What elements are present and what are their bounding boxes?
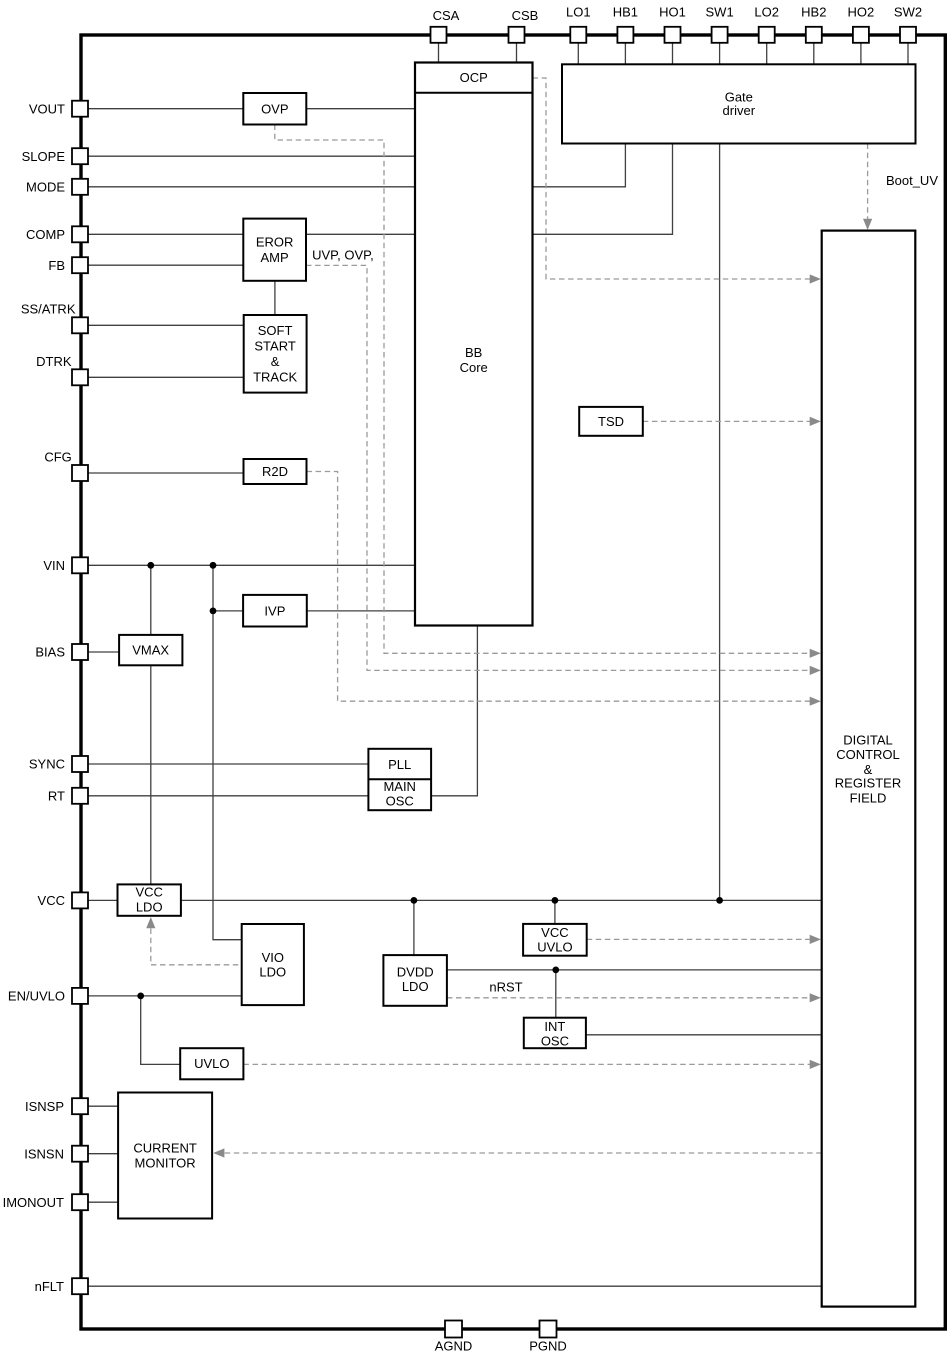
wire FB to error amp [88, 264, 243, 266]
pin IMONOUT [72, 1194, 88, 1210]
svg-text:MAIN: MAIN [383, 779, 416, 794]
wire SW2 stub [907, 43, 909, 65]
dashed net VCC UVLO to digital control [587, 938, 811, 940]
wire error amp to BB core [306, 233, 416, 235]
svg-text:INT: INT [544, 1019, 565, 1034]
block UVLO [180, 1048, 243, 1079]
pin HB1 [617, 27, 633, 43]
pin BIAS [72, 644, 88, 660]
svg-text:CONTROL: CONTROL [836, 747, 900, 762]
pin RT [72, 788, 88, 804]
svg-text:TRACK: TRACK [253, 370, 297, 385]
pin CSA [431, 27, 447, 43]
pin COMP [72, 226, 88, 242]
svg-text:CURRENT: CURRENT [133, 1141, 197, 1156]
svg-text:DTRK: DTRK [36, 354, 72, 369]
svg-text:IMONOUT: IMONOUT [3, 1195, 64, 1210]
dashed net error amp UVP/OVP to digital control [306, 265, 810, 670]
junction dot VCC-DVDD [411, 897, 418, 904]
junction dot EN/UVLO branch [137, 993, 144, 1000]
svg-text:OSC: OSC [386, 794, 414, 809]
svg-text:START: START [254, 339, 295, 354]
arrowhead Boot_UV net [863, 219, 872, 230]
svg-text:LO1: LO1 [566, 5, 591, 20]
wire OVP to BB core [306, 108, 416, 110]
svg-text:R2D: R2D [262, 464, 288, 479]
svg-text:IVP: IVP [264, 604, 285, 619]
svg-text:&: & [271, 354, 280, 369]
block VCC LDO [118, 884, 181, 915]
svg-text:LDO: LDO [136, 900, 163, 915]
wire VIN to BB core [88, 564, 416, 566]
pin CSB [509, 27, 525, 43]
svg-text:LDO: LDO [259, 964, 286, 979]
wire CSB stub [516, 43, 518, 63]
svg-text:DIGITAL: DIGITAL [843, 733, 893, 748]
svg-text:VCC: VCC [135, 885, 162, 900]
junction dot VCC-UVLO [552, 897, 559, 904]
block current monitor [118, 1093, 212, 1219]
pin HO2 [853, 27, 869, 43]
wire VOUT to OVP [88, 108, 243, 110]
wire SS/ATRK to soft start [88, 324, 244, 326]
block VCC UVLO [523, 924, 587, 956]
svg-text:UVLO: UVLO [194, 1056, 229, 1071]
svg-text:ISNSN: ISNSN [24, 1146, 64, 1161]
wire RT to main osc [88, 795, 368, 797]
dashed net Boot_UV gate driver to digital control [867, 144, 869, 220]
arrowhead UVLO net [810, 1060, 821, 1069]
block DVDD LDO [383, 955, 447, 1006]
svg-text:CFG: CFG [44, 450, 71, 465]
svg-text:LO2: LO2 [754, 5, 779, 20]
wire EN/UVLO to VIO LDO [88, 995, 242, 997]
pin SW1 [712, 27, 728, 43]
wire VIN column to VIO LDO [213, 565, 242, 939]
wire HO1 stub [672, 43, 674, 65]
dashed net nRST DVDD LDO to digital control [447, 997, 810, 999]
wire IMONOUT to current monitor [88, 1201, 118, 1203]
arrowhead nRST net [810, 993, 821, 1002]
svg-text:CSA: CSA [433, 8, 460, 23]
wire VCC node to gate driver [719, 144, 721, 901]
svg-text:FIELD: FIELD [850, 790, 887, 805]
dashed net VIO LDO to VCC LDO [151, 929, 242, 965]
svg-text:UVP, OVP,: UVP, OVP, [312, 248, 374, 263]
svg-text:PGND: PGND [529, 1339, 567, 1354]
svg-text:nFLT: nFLT [35, 1279, 64, 1294]
svg-text:SW1: SW1 [706, 5, 734, 20]
wire IVP to BB core [307, 610, 416, 612]
svg-text:nRST: nRST [489, 980, 522, 995]
wire ISNSP to current monitor [88, 1105, 118, 1107]
wire SYNC to PLL [88, 763, 368, 765]
svg-text:SW2: SW2 [894, 5, 922, 20]
arrowhead error amp net [810, 666, 821, 675]
wire main osc to BB core [431, 626, 477, 796]
svg-text:MODE: MODE [26, 179, 65, 194]
pin HB2 [806, 27, 822, 43]
arrowhead OCP net [810, 274, 821, 283]
wire HB1 stub [624, 43, 626, 65]
pin VIN [72, 557, 88, 573]
pin LO2 [759, 27, 775, 43]
svg-text:COMP: COMP [26, 227, 65, 242]
wire BB core to gate driver (MODE column) [533, 144, 626, 187]
junction dot DVDD-INT OSC [552, 967, 559, 974]
wire nFLT to digital control [88, 1285, 822, 1287]
pin MODE [72, 179, 88, 195]
svg-text:VMAX: VMAX [132, 643, 169, 658]
svg-text:VCC: VCC [541, 925, 568, 940]
svg-text:PLL: PLL [388, 757, 411, 772]
dashed net R2D to digital control [307, 472, 811, 702]
svg-text:SYNC: SYNC [29, 757, 65, 772]
svg-text:FB: FB [48, 258, 65, 273]
pin VCC [72, 892, 88, 908]
block digital control and register field [822, 231, 916, 1307]
wire VCC node to DVDD LDO [413, 900, 415, 955]
block IVP [243, 595, 307, 627]
svg-text:SLOPE: SLOPE [22, 149, 66, 164]
svg-text:SS/ATRK: SS/ATRK [21, 302, 76, 317]
pin DTRK [72, 369, 88, 385]
wire CFG to R2D [88, 472, 244, 474]
svg-text:OCP: OCP [460, 70, 488, 85]
wire CSA stub [438, 43, 440, 63]
svg-text:VIO: VIO [262, 950, 284, 965]
block BB core with OCP compartment [415, 63, 533, 626]
svg-text:EN/UVLO: EN/UVLO [8, 989, 65, 1004]
block soft start and track [244, 315, 307, 393]
svg-text:Boot_UV: Boot_UV [886, 173, 938, 188]
wire VMAX to VCC LDO [150, 665, 152, 884]
block error amp [243, 219, 306, 281]
wire DTRK to soft start [88, 376, 244, 378]
dashed net OCP to digital control [533, 78, 811, 279]
block TSD [579, 407, 643, 436]
svg-text:AGND: AGND [435, 1339, 473, 1354]
svg-text:RT: RT [48, 788, 65, 803]
wire MODE to BB core [88, 186, 416, 188]
svg-text:HB1: HB1 [613, 5, 638, 20]
arrowhead VCC UVLO net [810, 935, 821, 944]
wire INT OSC to digital control [586, 1034, 822, 1036]
pin VOUT [72, 101, 88, 117]
arrowhead VCC LDO feedback net [146, 917, 155, 928]
svg-text:HB2: HB2 [801, 5, 826, 20]
svg-text:HO2: HO2 [848, 5, 875, 20]
dashed net digital control to current monitor [225, 1152, 822, 1154]
arrowhead R2D net [810, 697, 821, 706]
block VIO LDO [242, 924, 304, 1005]
pin HO1 [665, 27, 681, 43]
arrowhead OVP net [810, 649, 821, 658]
junction dot IVP branch [210, 608, 217, 615]
pin SS/ATRK [72, 317, 88, 333]
pin ISNSP [72, 1098, 88, 1114]
svg-text:CSB: CSB [512, 8, 539, 23]
svg-text:OVP: OVP [261, 101, 288, 116]
svg-text:MONITOR: MONITOR [135, 1156, 196, 1171]
wire VCC node to VCC UVLO [554, 900, 556, 924]
wire COMP to error amp [88, 233, 243, 235]
arrowhead TSD net [810, 417, 821, 426]
wire BIAS to VMAX [88, 651, 119, 653]
block INT OSC [524, 1018, 586, 1049]
pin nFLT [72, 1278, 88, 1294]
block OVP [243, 93, 306, 125]
wire VCC LDO to digital control [181, 899, 822, 901]
dashed net OVP to digital control [275, 125, 810, 654]
svg-text:VOUT: VOUT [29, 101, 65, 116]
wire HB2 stub [813, 43, 815, 65]
svg-text:VCC: VCC [38, 893, 65, 908]
pin AGND [445, 1321, 462, 1338]
arrowhead current monitor net [213, 1148, 224, 1157]
svg-text:LDO: LDO [402, 979, 429, 994]
dashed net TSD to digital control [643, 420, 810, 422]
wire VIN to VMAX [150, 565, 152, 635]
svg-text:BIAS: BIAS [35, 645, 65, 660]
svg-text:REGISTER: REGISTER [835, 775, 901, 790]
svg-text:SOFT: SOFT [258, 323, 293, 338]
block R2D [244, 459, 307, 484]
wire ISNSN to current monitor [88, 1153, 118, 1155]
dashed net UVLO to digital control [243, 1063, 810, 1065]
pin SLOPE [72, 148, 88, 164]
pin FB [72, 257, 88, 273]
block gate driver [562, 64, 916, 143]
svg-text:OSC: OSC [541, 1034, 569, 1049]
pin SW2 [900, 27, 916, 43]
wire VCC to VCC LDO [88, 899, 118, 901]
junction dot VIN-VMAX [147, 562, 154, 569]
svg-text:Core: Core [460, 360, 488, 375]
wire SLOPE to BB core [88, 155, 416, 157]
svg-text:TSD: TSD [598, 414, 624, 429]
pin ISNSN [72, 1146, 88, 1162]
wire LO1 stub [577, 43, 579, 65]
wire LO2 stub [766, 43, 768, 65]
block VMAX [119, 635, 182, 665]
svg-text:BB: BB [465, 345, 482, 360]
junction dot VCC-gate driver [716, 897, 723, 904]
wire DVDD node to INT OSC [555, 970, 557, 1018]
wire SW1 stub [719, 43, 721, 65]
block PLL / main osc [368, 749, 431, 810]
svg-text:ISNSP: ISNSP [25, 1099, 64, 1114]
pin SYNC [72, 756, 88, 772]
svg-text:UVLO: UVLO [537, 939, 572, 954]
junction dot VIN-column [210, 562, 217, 569]
wire error amp to soft start [274, 281, 276, 315]
svg-text:driver: driver [723, 103, 756, 118]
pin EN/UVLO [72, 988, 88, 1004]
svg-text:AMP: AMP [261, 250, 289, 265]
svg-text:VIN: VIN [43, 558, 65, 573]
wire DVDD LDO to digital control [447, 969, 822, 971]
svg-text:EROR: EROR [256, 235, 294, 250]
wire VIN column to IVP [213, 610, 243, 612]
wire BB core to gate driver (COMP column) [533, 144, 673, 235]
pin CFG [72, 465, 88, 481]
svg-text:HO1: HO1 [659, 5, 686, 20]
wire HO2 stub [860, 43, 862, 65]
wire EN node to UVLO [141, 996, 181, 1065]
pin PGND [540, 1321, 557, 1338]
svg-text:DVDD: DVDD [397, 965, 434, 980]
pin LO1 [570, 27, 586, 43]
